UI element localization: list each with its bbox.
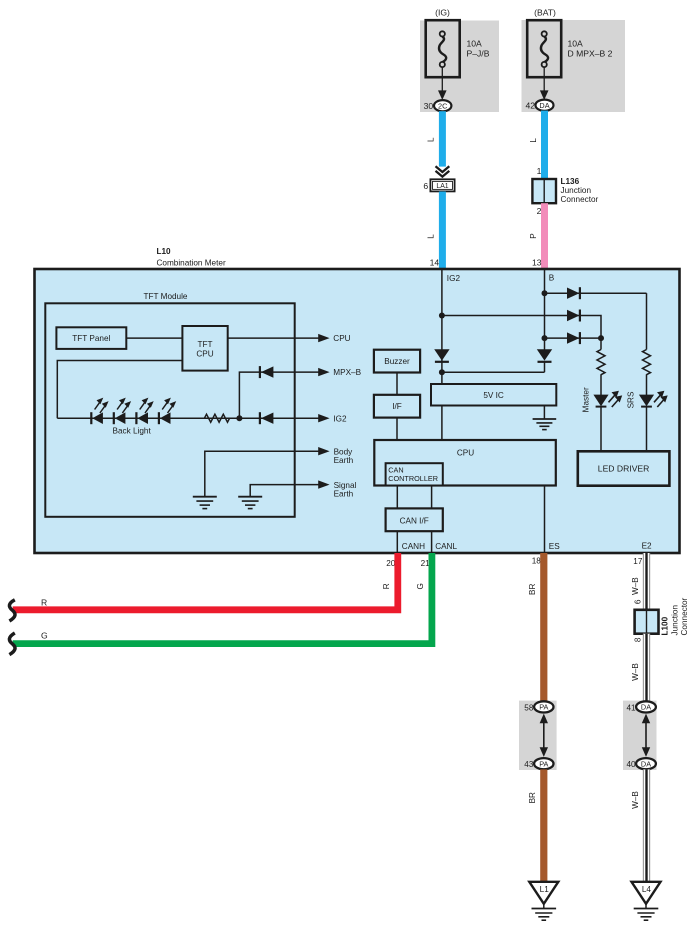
wire MPX-B branch [239, 372, 319, 418]
svg-text:6: 6 [423, 181, 428, 191]
svg-text:W–B: W–B [631, 663, 640, 681]
svg-text:G: G [416, 583, 425, 589]
wire G (green) CANL [13, 553, 432, 644]
diode D2 (row2, pointing right) [567, 310, 580, 322]
node junction dot IG2/5V [439, 369, 445, 375]
svg-text:2: 2 [537, 206, 542, 216]
LED backlight 3 [136, 398, 153, 425]
wire W-B (white/black) E2 lower [643, 769, 650, 881]
connector pin 41 DA [636, 701, 656, 712]
wire Master LED to LED driver [600, 407, 602, 452]
svg-text:CPU: CPU [333, 334, 350, 343]
resistor R1 (Master) [597, 350, 605, 375]
svg-text:D MPX–B 2: D MPX–B 2 [568, 48, 613, 58]
net B vertical wire [544, 269, 546, 350]
svg-text:30: 30 [424, 101, 434, 111]
wire TFT CPU to backlight row [57, 361, 182, 419]
svg-text:P: P [529, 233, 538, 239]
svg-text:Connector: Connector [680, 597, 689, 635]
svg-text:41: 41 [626, 703, 636, 712]
wire row1 B to SRS branch [545, 292, 647, 294]
diode D1 (row1, pointing right) [567, 287, 580, 299]
connector LA1 pin 6 [430, 179, 454, 191]
inter-connector arrows PA [540, 714, 548, 757]
svg-text:6: 6 [633, 599, 642, 604]
wire BR (brown) ES upper [540, 553, 547, 702]
fuse block (BAT) background [522, 20, 626, 112]
label L100 Junction Connector (rotated) [661, 597, 689, 635]
diode D7 (MPX-B row, pointing left) [260, 366, 274, 378]
svg-text:17: 17 [633, 557, 643, 566]
IG2 row arrow [318, 414, 329, 422]
svg-text:R: R [41, 597, 47, 607]
svg-text:Junction: Junction [561, 186, 592, 195]
svg-text:G: G [41, 630, 48, 640]
svg-text:I/F: I/F [392, 402, 402, 411]
svg-text:L4: L4 [642, 885, 652, 894]
CAN CONTROLLER (inside CPU) [386, 463, 443, 485]
svg-text:TFT Panel: TFT Panel [72, 334, 110, 343]
svg-text:R: R [382, 583, 391, 589]
5V IC U2 [431, 384, 556, 406]
junction connector L136 [532, 179, 556, 203]
wire resistor to Master LED [600, 374, 602, 395]
svg-text:L: L [427, 137, 436, 142]
connector pin 43 PA [534, 758, 553, 769]
diode D6 (B line, pointing down) [537, 349, 552, 372]
wire CAN I/F to pin CANH [396, 531, 398, 553]
wire CAN controller to CAN I/F (CANL side) [431, 486, 433, 509]
body earth arrow [318, 447, 329, 455]
svg-text:10A: 10A [467, 39, 483, 49]
svg-text:P–J/B: P–J/B [467, 48, 490, 58]
TFT CPU box [182, 326, 227, 371]
ground (5V IC) [533, 419, 557, 430]
svg-text:DA: DA [641, 703, 651, 712]
wire SRS LED to LED driver [646, 407, 648, 452]
svg-text:2C: 2C [438, 101, 447, 110]
svg-text:14: 14 [430, 258, 440, 268]
wire CAN I/F to pin CANL [431, 531, 433, 553]
svg-text:40: 40 [626, 760, 636, 769]
svg-text:8: 8 [633, 637, 642, 642]
svg-text:5V IC: 5V IC [483, 391, 504, 400]
svg-text:L100: L100 [661, 616, 670, 635]
wire L (blue) from 2C to connector LA1 [439, 111, 446, 166]
wire 5V IC to CPU [441, 406, 443, 441]
wire P (pink) from L136 to meter pin 13 [541, 203, 548, 269]
I/F U4 [374, 395, 420, 418]
svg-text:(IG): (IG) [435, 7, 450, 17]
svg-text:E2: E2 [642, 541, 652, 550]
connector pin 58 PA [534, 701, 553, 712]
LED backlight 4 [159, 398, 176, 425]
wire TFT CPU to CPU arrow [228, 337, 319, 339]
svg-text:58: 58 [524, 703, 534, 712]
wire W-B (white/black) E2 upper [643, 553, 650, 610]
ground L4 triangle [632, 882, 661, 904]
fuse F2 10A D MPX-B 2 [527, 20, 561, 77]
svg-text:Connector: Connector [561, 195, 599, 204]
svg-text:W–B: W–B [631, 791, 640, 809]
combination meter box L10 [35, 269, 680, 553]
wire break squiggle (G) [9, 633, 15, 655]
wire signal earth [250, 485, 319, 497]
svg-text:20: 20 [386, 559, 396, 568]
connector pin 40 DA [636, 758, 656, 769]
wire buzzer to I/F [396, 373, 398, 395]
svg-text:TFT: TFT [197, 340, 212, 349]
svg-text:LA1: LA1 [436, 183, 448, 190]
fuse block (IG) background [420, 21, 499, 113]
svg-text:Buzzer: Buzzer [384, 357, 410, 366]
svg-text:43: 43 [524, 760, 534, 769]
wire break squiggle (R) [9, 600, 15, 621]
svg-text:BR: BR [528, 584, 537, 595]
resistor R2 (SRS) [643, 350, 651, 375]
svg-text:L: L [529, 138, 538, 143]
svg-text:Earth: Earth [334, 456, 354, 465]
node junction dots on B line [542, 290, 548, 296]
wire CAN controller to CAN I/F (CANH side) [396, 486, 398, 509]
wire L (blue) from LA1 to meter pin 14 [439, 192, 446, 270]
wire CPU to pin ES [544, 486, 546, 554]
svg-text:IG2: IG2 [447, 274, 461, 283]
backlight row wire [57, 417, 319, 419]
svg-text:B: B [549, 273, 555, 282]
MPX-B row arrow [318, 368, 329, 376]
wire body earth [205, 451, 319, 496]
svg-text:L1: L1 [540, 885, 550, 894]
svg-text:Combination Meter: Combination Meter [157, 259, 226, 268]
svg-text:L: L [427, 234, 436, 239]
resistor R3 (backlight) [204, 414, 229, 422]
svg-text:10A: 10A [568, 39, 584, 49]
svg-text:CPU: CPU [196, 349, 213, 358]
svg-text:(BAT): (BAT) [534, 7, 556, 17]
LED backlight 2 [114, 398, 131, 425]
LED SRS (pointing down with emission arrows) [639, 391, 668, 407]
wire TFT panel to TFT CPU [126, 337, 182, 339]
wire I/F to CPU [396, 418, 398, 440]
svg-text:ES: ES [549, 542, 560, 551]
node junction dot Master branch [598, 335, 604, 341]
svg-text:CPU: CPU [457, 448, 474, 457]
wire horizontal diode outputs to 5V node [442, 371, 545, 373]
LED DRIVER U3 [578, 451, 670, 485]
CPU U5 [374, 440, 556, 486]
net IG2 vertical wire [441, 269, 443, 384]
svg-text:DA: DA [641, 759, 651, 768]
connector pin DA [536, 100, 554, 111]
wire BR (brown) ES lower [540, 769, 547, 881]
LED backlight 1 [91, 398, 108, 425]
connector block DA background [623, 701, 657, 770]
svg-text:Earth: Earth [334, 489, 354, 498]
TFT Panel box [56, 327, 126, 349]
svg-text:TFT Module: TFT Module [144, 292, 188, 301]
svg-text:Back Light: Back Light [113, 426, 152, 435]
wire R (red) CANH [13, 553, 398, 610]
svg-text:BR: BR [528, 792, 537, 803]
svg-text:PA: PA [539, 703, 548, 712]
svg-text:13: 13 [532, 258, 542, 268]
diode D4 (IG2 row, pointing left) [260, 412, 274, 424]
signal earth arrow [318, 480, 329, 488]
wire 5V IC to ground [543, 406, 545, 420]
svg-text:CANL: CANL [435, 542, 457, 551]
wire fuse F1 to pin 30 with arrow [438, 67, 447, 100]
connector block PA background [519, 701, 557, 770]
svg-text:IG2: IG2 [333, 414, 347, 423]
wire row3 B to Master node [545, 337, 602, 339]
svg-text:L136: L136 [561, 177, 580, 186]
wire Master branch top [600, 338, 602, 349]
inter-connector arrows DA [642, 714, 650, 757]
svg-text:LED DRIVER: LED DRIVER [598, 464, 650, 474]
wire fuse F2 to pin 42 with arrow [540, 67, 549, 100]
svg-text:Junction: Junction [670, 605, 679, 636]
wire row2 IG2 node to Master branch [442, 316, 601, 339]
node junction dot row2 [439, 313, 445, 319]
wire W-B (white/black) E2 middle [643, 634, 650, 701]
svg-text:MPX–B: MPX–B [333, 368, 361, 377]
CAN I/F U6 [386, 508, 443, 531]
diode D5 (IG2 line, pointing down) [434, 349, 449, 362]
svg-text:CAN I/F: CAN I/F [400, 516, 429, 525]
ground L1 triangle [529, 882, 558, 904]
ground (body earth) [193, 497, 217, 509]
wire resistor to SRS LED [646, 374, 648, 395]
svg-text:PA: PA [539, 759, 548, 768]
connector pin 2C [434, 100, 451, 111]
svg-text:42: 42 [525, 100, 535, 110]
ground (signal earth) [238, 497, 262, 509]
ground L1 earth symbol [532, 904, 557, 920]
wire SRS branch top [646, 293, 648, 349]
buzzer B1 [374, 350, 420, 373]
LED Master (pointing down with emission arrows) [593, 391, 622, 407]
junction connector L100 [635, 610, 659, 634]
svg-text:CANH: CANH [402, 542, 425, 551]
ground L4 earth symbol [634, 904, 659, 920]
diode D3 (row3, pointing right) [567, 332, 580, 344]
fuse F1 10A P-J/B [426, 20, 460, 77]
svg-text:W–B: W–B [631, 577, 640, 595]
wire L (blue) from DA to junction connector L136 [541, 111, 548, 179]
label L136 Junction Connector [561, 177, 599, 204]
svg-text:DA: DA [539, 101, 549, 110]
splice chevron arrows [436, 166, 450, 176]
svg-text:SRS: SRS [626, 391, 635, 408]
svg-text:18: 18 [532, 557, 542, 566]
node junction dot backlight/MPX-B [236, 415, 242, 421]
svg-text:Master: Master [581, 387, 590, 412]
svg-text:1: 1 [537, 166, 542, 176]
svg-text:CONTROLLER: CONTROLLER [388, 474, 438, 483]
TFT module box [45, 303, 294, 517]
svg-text:L10: L10 [157, 247, 172, 256]
